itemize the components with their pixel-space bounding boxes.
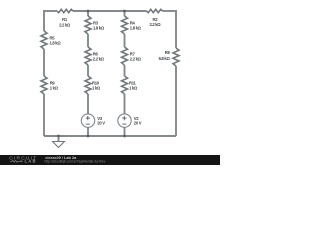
voltage source V2 circle [118, 114, 131, 127]
resistor R10 [85, 76, 91, 94]
wire col1 lower [43, 94, 45, 136]
resistor R3 [85, 16, 91, 34]
node junction bottom col2 [87, 135, 90, 138]
wire col4 lower [175, 66, 177, 136]
wire col2 top stub [87, 11, 89, 16]
footer title text [45, 155, 77, 160]
resistor R7 [122, 47, 128, 65]
svg-text:LAB: LAB [25, 159, 37, 164]
resistor R5 [41, 31, 47, 49]
CircuitLab logo arrow [21, 160, 24, 162]
wire col1 mid [43, 49, 45, 76]
wire col1 upper [43, 10, 45, 31]
node junction top col2 [87, 10, 90, 13]
resistor R8 [173, 48, 179, 66]
wire col3 seg2 [124, 34, 126, 47]
wire col2 seg3 [87, 65, 89, 76]
wire col3 seg4 [124, 94, 126, 114]
V3 plus sign [86, 116, 90, 120]
footer bar [0, 155, 220, 165]
wire bottom [44, 135, 176, 137]
resistor R2 [147, 9, 163, 12]
node junction bottom col3 [123, 135, 126, 138]
resistor R4 [122, 16, 128, 34]
CircuitLab logo squiggle [10, 160, 20, 162]
wire top left segment [44, 10, 57, 12]
footer url text [45, 160, 106, 164]
node junction top col3 [123, 10, 126, 13]
svg-text:http://circuitlab.com/c/7dq64w: http://circuitlab.com/c/7dq64w/lab-2a-th… [45, 160, 106, 164]
resistor R11 [122, 76, 128, 94]
wire col3 bottom stub [124, 127, 126, 136]
resistor R1 [57, 9, 73, 12]
ground triangle [53, 142, 65, 148]
wire top right segment [163, 10, 177, 12]
resistor R9 [41, 76, 47, 94]
wire col2 seg2 [87, 34, 89, 47]
wire top mid segment [73, 10, 147, 12]
wire col2 seg4 [87, 94, 89, 114]
voltage source V3 circle [81, 114, 94, 127]
wire col3 seg3 [124, 65, 126, 76]
V2 minus sign [122, 123, 126, 125]
wire col2 bottom stub [87, 127, 89, 136]
resistor R6 [85, 47, 91, 65]
wire ground stub [58, 136, 60, 142]
wire col4 upper [175, 10, 177, 48]
node junction ground [57, 135, 60, 138]
svg-text:cierzo29 / Lab 2a: cierzo29 / Lab 2a [45, 155, 77, 160]
wire col3 top stub [124, 11, 126, 16]
V2 plus sign [122, 116, 126, 120]
V3 minus sign [86, 123, 90, 125]
